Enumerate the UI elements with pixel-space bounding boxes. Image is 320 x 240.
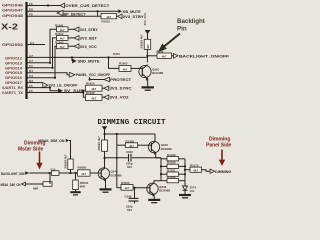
svg-text:4k7: 4k7	[81, 172, 86, 176]
wire to 3V3_VO2 flag	[102, 96, 104, 98]
svg-text:R1173: R1173	[190, 163, 199, 167]
transistor Q361	[139, 65, 151, 77]
svg-text:3V3_VO2: 3V3_VO2	[110, 96, 129, 100]
wire Q348 emitter down	[153, 195, 155, 200]
svg-text:13v: 13v	[190, 189, 195, 193]
flag 3V3_STBY (pullup)	[74, 27, 79, 32]
svg-text:4k7: 4k7	[125, 186, 130, 190]
flag 3V3_BST	[74, 36, 79, 41]
zener Z574	[184, 181, 186, 186]
svg-text:Backlight: Backlight	[177, 18, 205, 25]
svg-text:GPIO048: GPIO048	[2, 13, 24, 18]
ground Q361	[142, 86, 154, 88]
flag SND_MUTE	[72, 59, 77, 64]
resistor R1429	[167, 157, 179, 161]
capacitor C602 series	[128, 154, 130, 162]
flag 3V3_STBY	[118, 14, 123, 19]
svg-text:PANEL_VCC_ON/OFF: PANEL_VCC_ON/OFF	[76, 73, 111, 77]
flag 3V3_LE_ON/OFF	[43, 83, 48, 88]
svg-text:Pin: Pin	[177, 26, 187, 33]
wire GPIO016 row to R1643	[27, 46, 57, 77]
resistor R5602 vertical	[73, 180, 79, 190]
annotation arrow panel	[221, 150, 223, 161]
svg-text:BACKLIGHT_DIM: BACKLIGHT_DIM	[1, 172, 25, 176]
node collector Q344	[103, 157, 105, 159]
flag DIMMING	[210, 169, 215, 173]
flag BACKLIGHT_ON/OFF	[174, 54, 179, 59]
annotation arrow mstar	[39, 152, 41, 165]
node cap C548 branch	[133, 187, 135, 189]
flag 3V3_SYNC	[104, 86, 109, 91]
wire GPIO047 row	[27, 10, 118, 12]
wire R5610 down to collector	[104, 151, 106, 168]
svg-text:SND_MUTE: SND_MUTE	[78, 60, 101, 64]
svg-text:MSA6_DIM_ON: MSA6_DIM_ON	[39, 139, 65, 143]
wire main dim row	[29, 172, 51, 174]
svg-text:68R: 68R	[80, 184, 86, 188]
svg-text:R1619 4k7: R1619 4k7	[140, 34, 144, 49]
wire cap to ladder rail	[132, 157, 161, 159]
svg-text:68R: 68R	[33, 187, 39, 191]
svg-text:4k7: 4k7	[91, 96, 96, 100]
ground Q348	[148, 199, 160, 201]
wire GPIO048 row	[27, 15, 101, 17]
wire from MSA6 flag down	[69, 141, 71, 160]
vertical to Q348 base / resistor R5606	[117, 187, 121, 189]
svg-text:KB_MUTE: KB_MUTE	[123, 10, 142, 14]
node dots ladder	[184, 165, 186, 167]
svg-text:R5604 4k7: R5604 4k7	[63, 154, 67, 169]
svg-text:/UART1_TX: /UART1_TX	[2, 90, 23, 95]
ladder left rail	[160, 158, 162, 181]
flag 3V3_VO2	[104, 95, 109, 100]
flag 3V3_VCC	[74, 44, 79, 49]
node at 72,57.4	[71, 56, 73, 58]
resistor R5610 vertical	[102, 140, 108, 151]
svg-text:3V3_VCC: 3V3_VCC	[143, 12, 147, 26]
svg-text:PROTECT: PROTECT	[110, 78, 132, 82]
svg-text:DIMMING CIRCUIT: DIMMING CIRCUIT	[98, 119, 166, 127]
svg-text:C602: C602	[126, 150, 133, 154]
wire GPIO046 row	[27, 5, 60, 7]
svg-text:R1615: R1615	[102, 19, 111, 23]
supply arrow panel	[102, 126, 108, 130]
svg-text:BC848B: BC848B	[111, 173, 122, 177]
wire emitter down	[147, 79, 149, 87]
wire PROTECT branch	[89, 77, 91, 80]
node on row1	[47, 4, 49, 6]
svg-text:R5610 4k7: R5610 4k7	[97, 136, 101, 151]
svg-text:63V: 63V	[127, 208, 132, 212]
ground R5602	[70, 191, 80, 193]
resistor R1615	[101, 13, 117, 18]
flag KB_MUTE	[118, 9, 122, 13]
resistor R1430	[167, 164, 179, 168]
svg-text:3V3_STBY: 3V3_STBY	[123, 15, 145, 19]
svg-text:63V: 63V	[127, 165, 132, 169]
wire to 3V3_SYNC flag	[102, 87, 104, 89]
resistor R1432	[167, 179, 179, 183]
wire to Q344 base	[90, 172, 102, 174]
node top branch	[103, 133, 105, 135]
svg-text:3V3_VCC: 3V3_VCC	[80, 45, 97, 49]
wire long control row	[27, 56, 147, 58]
flag 5V_SUB	[58, 88, 63, 93]
capacitor C548	[134, 188, 136, 199]
flag BP_DETECT	[57, 10, 63, 15]
wire drop to R1663	[109, 57, 120, 68]
wire emitter down	[105, 179, 107, 189]
wire bend up to main row	[49, 173, 51, 184]
wire second dim row	[26, 183, 44, 185]
flag PANEL_VCC_ON/OFF	[69, 72, 75, 77]
svg-text:C548: C548	[125, 194, 132, 198]
svg-text:4k7: 4k7	[60, 45, 65, 49]
svg-text:OVER_CUR_DETECT: OVER_CUR_DETECT	[65, 4, 110, 8]
wire to DIMMING flag	[202, 170, 211, 172]
resistor inline row2	[43, 182, 52, 187]
svg-text:4k7: 4k7	[123, 67, 128, 71]
svg-text:R1432: R1432	[167, 175, 176, 179]
wire to 3V3_STBY flag	[117, 15, 118, 17]
svg-text:BACKLIGHT_ON/OFF: BACKLIGHT_ON/OFF	[179, 55, 230, 59]
vertical mid rail	[116, 134, 118, 188]
svg-text:BP_DETECT: BP_DETECT	[64, 12, 87, 16]
wire top rail to Q349	[105, 134, 156, 142]
svg-text:BC848B: BC848B	[161, 147, 172, 151]
wire Q349 emitter to ladder	[156, 153, 161, 158]
wire GPIO052 stub	[27, 44, 45, 46]
wire GPIO014 row to R1612	[27, 38, 57, 68]
svg-text:MSA6_DIM_ON: MSA6_DIM_ON	[1, 183, 21, 187]
node at 70.5,173	[69, 172, 71, 174]
resistor R1619 vertical	[144, 39, 151, 49]
svg-text:R1614: R1614	[86, 81, 95, 85]
connector X-2 bus	[25, 2, 27, 99]
resistor R1431	[167, 172, 179, 176]
wire R1663 to base	[131, 67, 142, 69]
supply arrow 3V3_VCC	[145, 30, 151, 34]
svg-text:D361: D361	[113, 52, 120, 56]
svg-text:3V3_SYNC: 3V3_SYNC	[110, 87, 132, 91]
transistor Q348	[147, 183, 158, 194]
ground Z574	[179, 194, 191, 196]
wire jog down to R1640	[83, 91, 85, 97]
wire GPIO013 row to R1641	[27, 29, 57, 63]
svg-text:3V3_BST: 3V3_BST	[80, 37, 98, 41]
wire UART1_RX row	[27, 88, 58, 91]
svg-text:R1663: R1663	[119, 62, 128, 66]
svg-text:Panel Side: Panel Side	[206, 143, 231, 149]
node collector junction	[146, 55, 148, 57]
svg-text:4k7: 4k7	[162, 55, 167, 59]
wire UART1_TX row	[27, 92, 83, 94]
wire jog to SND_MUTE	[71, 57, 73, 61]
svg-text:BC848B: BC848B	[152, 71, 163, 75]
node at 49.5,173	[48, 172, 50, 174]
wire to R1428	[117, 144, 126, 146]
ground Q344	[100, 188, 112, 190]
wire tap to R1173	[185, 169, 190, 171]
wire GPIO017 row	[27, 82, 43, 84]
svg-text:R1431: R1431	[167, 168, 176, 172]
resistor R5604 vertical on MSA6 line	[68, 159, 73, 170]
svg-text:DIMMING: DIMMING	[215, 170, 231, 174]
svg-text:GPIO052: GPIO052	[2, 42, 24, 47]
wire text to R1614	[84, 90, 86, 92]
svg-text:R5608: R5608	[78, 166, 87, 170]
svg-text:4k7: 4k7	[193, 169, 198, 173]
transistor Q344	[98, 168, 109, 179]
node at 97.6,11.3	[97, 10, 99, 12]
svg-text:R1430: R1430	[167, 161, 176, 165]
flag PROTECT	[104, 77, 110, 82]
svg-text:3V3_LE_ON/OFF: 3V3_LE_ON/OFF	[49, 84, 79, 88]
annotation arrow backlight	[164, 34, 180, 47]
svg-text:X-2: X-2	[1, 23, 19, 32]
flag OVER_CUR_DETECT	[60, 3, 65, 8]
wire joint rows 2-3	[97, 11, 99, 16]
wire Q348 collector to ladder	[154, 181, 161, 183]
svg-text:4k7: 4k7	[146, 44, 150, 49]
wire branch right from collector node	[105, 157, 128, 159]
ladder right rail	[184, 159, 186, 181]
wire R1619 down	[146, 49, 148, 62]
svg-text:3V3_STBY: 3V3_STBY	[80, 28, 99, 32]
wire GPIO015 row	[27, 73, 69, 75]
transistor Q349	[148, 141, 159, 152]
svg-text:BC848B: BC848B	[159, 189, 170, 193]
svg-text:4k7: 4k7	[129, 144, 134, 148]
svg-text:R1429: R1429	[167, 153, 176, 157]
node cap branch	[82, 90, 84, 92]
node pulldown branch	[74, 172, 76, 174]
